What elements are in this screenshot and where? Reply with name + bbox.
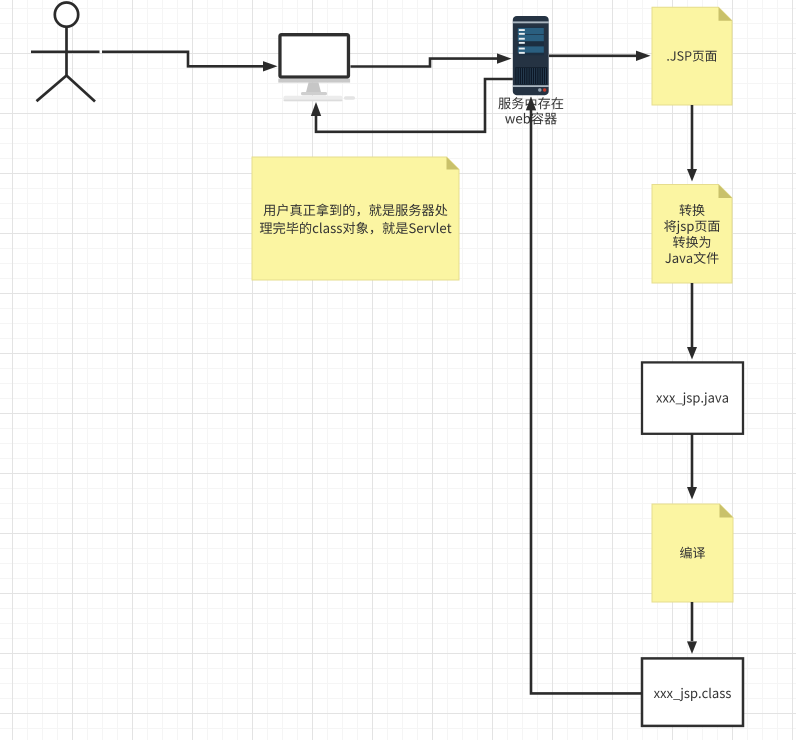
note N4 text line2 — [260, 222, 452, 235]
box B2 xxx_jsp.class — [642, 658, 743, 726]
box B2 text xxx_jsp.class — [654, 688, 731, 701]
wire client PC to server — [351, 59, 500, 67]
client PC monitor — [278, 33, 355, 101]
note N4 explanation — [255, 160, 460, 281]
note N3 compile — [655, 507, 734, 603]
note N1 .JSP page — [655, 10, 733, 105]
wire compile note down to class box — [691, 602, 694, 641]
note N2 text line3 转换为 — [673, 236, 710, 248]
actor user body — [65, 27, 68, 76]
actor user arms — [31, 50, 100, 53]
box B1 text xxx_jsp.java — [656, 392, 728, 405]
wire server to JSP note — [549, 54, 638, 57]
actor user right leg — [67, 76, 96, 102]
wire class box back up to server bottom — [531, 109, 642, 693]
note N2 text line2 将jsp页面 — [664, 220, 720, 234]
label: web container (line 2) — [505, 112, 557, 124]
wire JSP note down to convert note — [691, 105, 694, 169]
actor user head — [55, 3, 78, 27]
note N2 convert jsp to java — [655, 187, 733, 283]
note N4 text line1 — [264, 204, 448, 217]
wire java box down to compile note — [691, 434, 694, 487]
wire convert note down to java box — [691, 283, 694, 347]
actor user left leg — [37, 76, 67, 102]
note N1 text .JSP页面 — [667, 51, 716, 62]
box B1 xxx_jsp.java — [642, 362, 743, 433]
note N3 text 编译 — [680, 547, 705, 559]
wire server back to client PC — [316, 79, 513, 132]
note N2 text line4 Java文件 — [665, 252, 718, 264]
label: server has web container (line 1) — [498, 97, 563, 109]
wire user to client PC — [102, 52, 265, 67]
server tower — [513, 16, 549, 95]
note N2 text line1 转换 — [680, 204, 705, 216]
